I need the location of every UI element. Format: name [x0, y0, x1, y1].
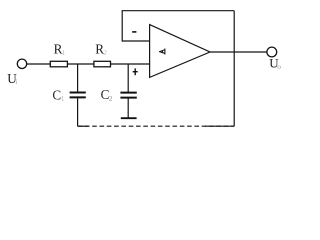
- svg-text:2: 2: [103, 48, 107, 57]
- solid right segment of bottom wire: [205, 125, 234, 127]
- svg-text:1: 1: [62, 48, 66, 57]
- feedback wire top horizontal: [122, 10, 235, 12]
- minus sign label: [132, 31, 136, 33]
- op-amp gain label A (rotated, drawn as strokes): [160, 49, 165, 54]
- feedback wire left vertical: [121, 11, 123, 42]
- solid start segment of bottom wire: [78, 125, 89, 127]
- svg-text:o: o: [277, 62, 281, 71]
- wire R2 to op-amp + input: [111, 63, 150, 65]
- wire R1 to R2: [67, 63, 94, 65]
- wire input to R1: [27, 63, 51, 65]
- capacitor C2: [120, 92, 136, 94]
- wire C2 down to ground bar: [127, 98, 129, 117]
- resistor R2: [94, 61, 111, 67]
- svg-text:1: 1: [61, 94, 65, 103]
- node B junction wire down to C2: [127, 64, 129, 92]
- resistor R1: [50, 61, 67, 67]
- svg-text:i: i: [15, 77, 17, 86]
- dashed bottom feedback wire C1 to output node: [78, 125, 235, 127]
- wire op-amp output: [210, 51, 267, 53]
- plus sign label: [133, 71, 138, 73]
- wire C1 down to dashed feedback line: [77, 98, 79, 126]
- input terminal circle Ui: [17, 59, 26, 68]
- ground bar under C2: [121, 117, 137, 119]
- svg-text:2: 2: [109, 94, 113, 103]
- wire inverting input: [122, 40, 149, 42]
- capacitor C1: [70, 92, 86, 94]
- node A junction wire down to C1: [77, 64, 79, 92]
- output terminal circle Uo: [267, 47, 277, 57]
- op-amp U1 triangle: [150, 25, 210, 78]
- feedback wire right vertical down to output node and bottom line: [233, 11, 235, 127]
